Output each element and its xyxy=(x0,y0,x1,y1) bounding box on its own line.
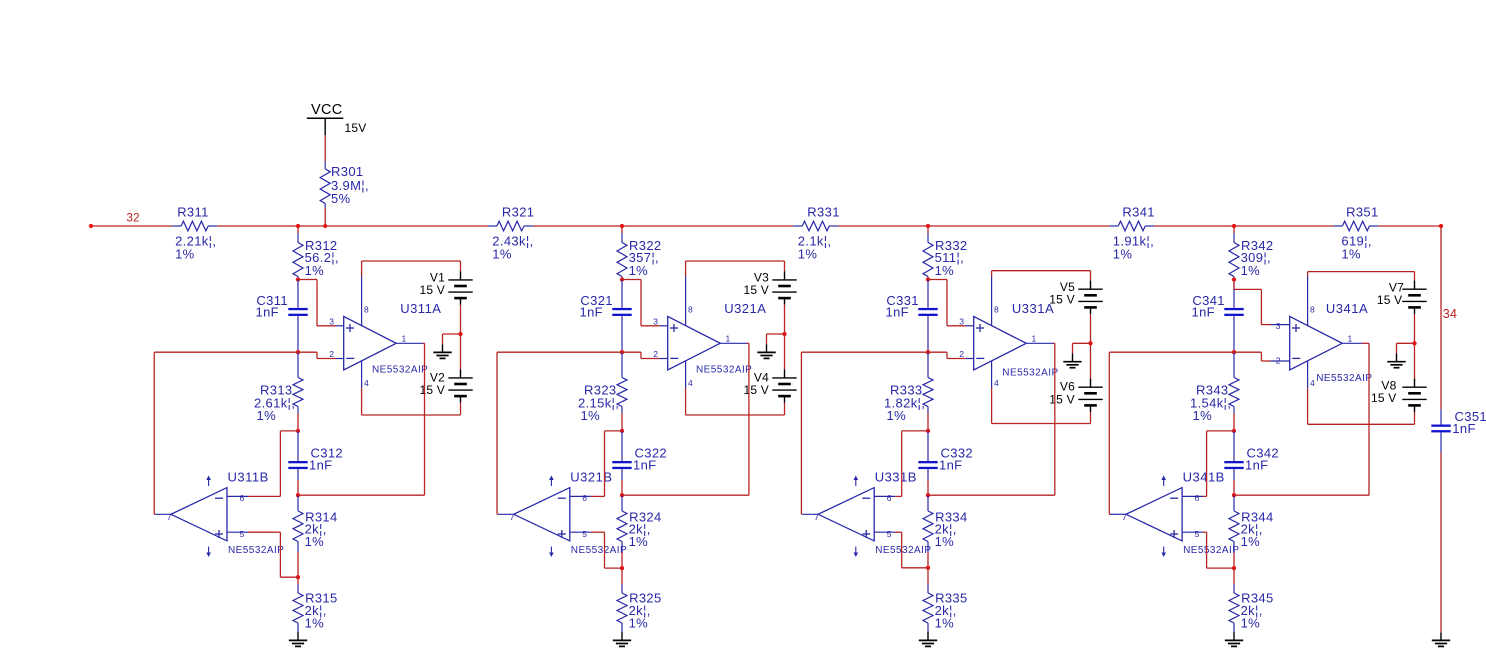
pin 8 label U311A xyxy=(364,304,369,314)
U321A pin 8 lead xyxy=(685,261,687,326)
tolerance R315 1% xyxy=(305,615,325,630)
pin 6 label U341B xyxy=(1195,493,1200,503)
value R313 xyxy=(254,395,295,410)
wire node to U311A pin3 xyxy=(298,280,336,326)
label R311 xyxy=(177,204,209,219)
node C311-R313 junction xyxy=(296,350,300,354)
node R312-C311 junction xyxy=(296,277,300,281)
tolerance R301 5% xyxy=(331,191,351,206)
tolerance R343 1% xyxy=(1193,408,1213,423)
svg-text:15 V: 15 V xyxy=(744,283,770,297)
tolerance R351 1% xyxy=(1341,247,1361,262)
pin 2 label U321A xyxy=(653,349,658,359)
resistor R301 xyxy=(320,162,330,208)
resistor R335 xyxy=(923,568,933,632)
wire U331A pin8 rail xyxy=(992,270,1091,272)
resistor R331 xyxy=(793,221,838,231)
svg-text:5: 5 xyxy=(1195,529,1200,539)
wire rail to V5 xyxy=(1090,271,1092,281)
wire R301 to bus xyxy=(324,208,326,226)
U331A pin 4 lead xyxy=(991,361,993,424)
wire mid node to ground xyxy=(1073,343,1091,353)
node bus junction stage 31 xyxy=(296,224,300,228)
ground op-amp U311A supply xyxy=(433,344,451,358)
pin 2 label U311A xyxy=(329,349,334,359)
power symbol VCC xyxy=(307,102,344,135)
U311B power arrow down xyxy=(206,547,211,558)
U321B power arrow down xyxy=(549,547,554,558)
wire U321B pin5 to node xyxy=(591,532,622,568)
wire V5 to mid node xyxy=(1090,314,1092,343)
svg-text:NE5532AIP: NE5532AIP xyxy=(875,545,931,556)
wire VCC to R301 xyxy=(324,135,326,161)
value V1 15 V xyxy=(420,283,446,297)
svg-text:1%: 1% xyxy=(305,263,325,278)
label U331B NE5532AIP xyxy=(875,545,931,556)
wire bus to R342 xyxy=(1233,226,1235,233)
U311A pin 8 lead xyxy=(361,261,363,326)
U311A pin 1 output stub xyxy=(396,342,423,344)
U311B power arrow up xyxy=(206,476,211,487)
pin 3 label U311A xyxy=(329,316,334,326)
svg-text:U321A: U321A xyxy=(724,301,766,316)
U321A minus sign xyxy=(670,357,678,359)
U341B power arrow down xyxy=(1161,547,1166,558)
wire node to U331A pin3 xyxy=(928,280,966,326)
value R341 xyxy=(1113,233,1154,248)
svg-text:34: 34 xyxy=(1443,307,1457,321)
svg-text:7: 7 xyxy=(167,512,172,522)
svg-text:R311: R311 xyxy=(177,204,209,219)
U311B pin 5 stub xyxy=(227,531,248,533)
value R331 xyxy=(798,233,832,248)
U321A pin 3 stub xyxy=(660,325,668,327)
resistor R325 xyxy=(617,568,627,632)
wire bus to R312 xyxy=(297,226,299,233)
node battery mid V7-V8 xyxy=(1412,341,1416,345)
wire U341B output feedback xyxy=(1109,352,1234,514)
label U311B xyxy=(228,470,269,485)
svg-text:1%: 1% xyxy=(935,615,955,630)
svg-text:1%: 1% xyxy=(1341,247,1361,262)
node R324-R325 junction xyxy=(620,566,624,570)
node battery mid V3-V4 xyxy=(782,332,786,336)
U321B plus sign xyxy=(558,530,566,538)
label V4 xyxy=(754,370,769,384)
resistor R314 xyxy=(293,495,303,577)
value R323 xyxy=(578,395,619,410)
tolerance R323 1% xyxy=(581,408,601,423)
svg-text:15 V: 15 V xyxy=(1377,293,1403,307)
U341B pin 7 output stub xyxy=(1110,513,1126,515)
ground op-amp U331A supply xyxy=(1063,354,1081,368)
pin 3 label U331A xyxy=(959,316,964,326)
svg-text:1%: 1% xyxy=(935,534,955,549)
resistor R315 xyxy=(293,577,303,631)
U321B pin 5 stub xyxy=(570,531,591,533)
node bus right corner xyxy=(1439,224,1443,228)
ground op-amp U341A supply xyxy=(1387,354,1405,368)
tolerance R345 1% xyxy=(1241,615,1261,630)
wire U321B output feedback xyxy=(497,352,622,514)
ground net 34 xyxy=(1432,633,1450,647)
U321A pin 2 stub xyxy=(660,358,668,360)
wire U331B pin6 to node xyxy=(895,431,928,497)
svg-text:2: 2 xyxy=(1276,356,1281,366)
label U331A NE5532AIP xyxy=(1002,368,1058,379)
pin 6 label U311B xyxy=(240,493,245,503)
value C332 1nF xyxy=(939,457,962,472)
label V1 xyxy=(430,271,445,285)
svg-text:2: 2 xyxy=(653,349,658,359)
svg-text:R351: R351 xyxy=(1346,204,1378,219)
U341B power arrow up xyxy=(1161,476,1166,487)
U331B pin 5 stub xyxy=(874,531,895,533)
pin 1 label U321A xyxy=(726,333,731,343)
svg-text:1nF: 1nF xyxy=(939,457,962,472)
op-amp U341A xyxy=(1290,316,1343,370)
node C341-R343 junction xyxy=(1232,350,1236,354)
wire V2 to bottom rail xyxy=(460,403,462,415)
svg-text:6: 6 xyxy=(240,493,245,503)
node battery mid V1-V2 xyxy=(458,332,462,336)
label C322 xyxy=(635,445,667,460)
wire C351 to ground xyxy=(1440,453,1442,633)
op-amp U331A xyxy=(974,316,1026,370)
label U331B xyxy=(875,470,917,485)
wire U311B output feedback xyxy=(154,352,298,514)
pin 5 label U331B xyxy=(887,529,892,539)
tolerance R331 1% xyxy=(798,247,818,262)
pin 5 label U311B xyxy=(240,529,245,539)
wire U321A output feedback xyxy=(622,343,749,495)
pin 5 label U341B xyxy=(1195,529,1200,539)
U341A pin 3 stub xyxy=(1271,324,1290,326)
wire bus to R322 xyxy=(621,226,623,233)
svg-text:1nF: 1nF xyxy=(256,305,279,320)
svg-text:1nF: 1nF xyxy=(1245,457,1268,472)
node R332-C331 junction xyxy=(926,277,930,281)
svg-text:3: 3 xyxy=(653,316,658,326)
node battery mid V5-V6 xyxy=(1088,341,1092,345)
label V8 xyxy=(1381,378,1396,392)
svg-text:4: 4 xyxy=(688,378,693,388)
wire node to U341A pin3 xyxy=(1234,280,1271,325)
svg-text:NE5532AIP: NE5532AIP xyxy=(1183,545,1239,556)
svg-text:3: 3 xyxy=(329,316,334,326)
value V2 15 V xyxy=(420,383,446,397)
U331B power arrow down xyxy=(854,547,859,558)
svg-text:U341A: U341A xyxy=(1326,301,1368,316)
label C332 xyxy=(941,445,973,460)
U331B minus sign xyxy=(862,497,870,499)
wire U311A output feedback xyxy=(298,343,425,495)
pin 2 label U331A xyxy=(959,349,964,359)
battery V4 xyxy=(772,369,796,402)
label R313 xyxy=(260,383,292,398)
label U341B xyxy=(1183,470,1225,485)
label R324 xyxy=(629,510,661,525)
wire net 34 vertical xyxy=(1440,226,1442,409)
U311A minus sign xyxy=(346,357,354,359)
pin 4 label U341A xyxy=(1310,378,1315,388)
svg-text:15 V: 15 V xyxy=(1049,392,1075,406)
U341B pin 5 stub xyxy=(1182,531,1203,533)
value C322 1nF xyxy=(633,457,656,472)
svg-text:1nF: 1nF xyxy=(633,457,656,472)
svg-text:5: 5 xyxy=(582,529,587,539)
value R311 xyxy=(175,233,216,248)
battery V2 xyxy=(448,369,472,402)
svg-text:1%: 1% xyxy=(1241,534,1261,549)
node R322-C321 junction xyxy=(620,277,624,281)
node net 32 left end xyxy=(89,224,93,228)
svg-text:5%: 5% xyxy=(331,191,351,206)
battery V3 xyxy=(772,271,796,304)
svg-text:U321B: U321B xyxy=(570,470,612,485)
svg-text:2: 2 xyxy=(959,349,964,359)
wire bottom rail to pin4 xyxy=(362,414,461,416)
label net 34 xyxy=(1443,307,1457,321)
U321A pin 1 output stub xyxy=(720,342,747,344)
svg-text:1nF: 1nF xyxy=(309,457,332,472)
node R344-R345 junction xyxy=(1232,566,1236,570)
tolerance R324 1% xyxy=(629,534,649,549)
wire mid node to V6 xyxy=(1090,343,1092,378)
svg-text:7: 7 xyxy=(510,512,515,522)
battery V8 xyxy=(1402,379,1426,412)
label U341A xyxy=(1326,301,1368,316)
U341A pin 1 output stub xyxy=(1342,342,1362,344)
node bus junction stage 32 xyxy=(620,224,624,228)
svg-text:1nF: 1nF xyxy=(1192,305,1215,320)
resistor R342 xyxy=(1229,233,1239,279)
pin 1 label U311A xyxy=(402,333,407,343)
U341A plus sign xyxy=(1292,324,1300,332)
svg-text:1%: 1% xyxy=(581,408,601,423)
tolerance R321 1% xyxy=(492,247,512,262)
value R334 2k xyxy=(935,522,957,537)
wire V4 to bottom rail xyxy=(784,403,786,415)
pin 8 label U331A xyxy=(994,304,999,314)
label R315 xyxy=(305,590,337,605)
op-amp U341B xyxy=(1126,488,1182,541)
wire U341A pin8 rail xyxy=(1308,271,1415,273)
label R334 xyxy=(935,510,967,525)
label net 32 xyxy=(127,213,140,225)
node bus junction stage 33 xyxy=(926,224,930,228)
resistor R332 xyxy=(923,233,933,279)
resistor R334 xyxy=(923,495,933,568)
node R314-R315 junction xyxy=(296,575,300,579)
svg-text:15 V: 15 V xyxy=(420,383,446,397)
tolerance R334 1% xyxy=(935,534,955,549)
label R323 xyxy=(584,383,616,398)
wire U331A output feedback xyxy=(928,343,1055,495)
label R343 xyxy=(1196,383,1228,398)
U341A minus sign xyxy=(1292,357,1300,359)
U341A pin 2 stub xyxy=(1271,360,1290,362)
U341B plus sign xyxy=(1170,530,1178,538)
tolerance R332 1% xyxy=(935,263,955,278)
U321A pin 4 lead xyxy=(685,361,687,415)
svg-text:1%: 1% xyxy=(629,615,649,630)
svg-text:4: 4 xyxy=(1310,378,1315,388)
wire mid node to V4 xyxy=(784,334,786,369)
pin 8 label U341A xyxy=(1310,304,1315,314)
U331A pin 3 stub xyxy=(966,325,974,327)
wire U311B pin5 to node xyxy=(248,532,298,577)
value R344 2k xyxy=(1241,522,1263,537)
svg-text:1nF: 1nF xyxy=(886,305,909,320)
U311B pin 6 stub xyxy=(227,495,248,497)
tolerance R333 1% xyxy=(887,408,907,423)
node C342-R344 junction xyxy=(1232,493,1236,497)
node C332-R334 junction xyxy=(926,493,930,497)
pin 7 label U311B xyxy=(167,512,172,522)
svg-text:1%: 1% xyxy=(798,247,818,262)
value V8 15 V xyxy=(1371,391,1397,405)
svg-text:1nF: 1nF xyxy=(580,305,603,320)
value V5 15 V xyxy=(1049,293,1075,307)
tolerance R314 1% xyxy=(305,534,325,549)
wire V7 to mid node xyxy=(1414,314,1416,343)
label C331 xyxy=(886,293,918,308)
ground below R325 xyxy=(613,632,631,647)
resistor R344 xyxy=(1229,495,1239,568)
resistor R322 xyxy=(617,233,627,279)
capacitor C332 xyxy=(918,431,937,495)
label R301 xyxy=(331,164,363,179)
svg-text:1%: 1% xyxy=(492,247,512,262)
tolerance R342 1% xyxy=(1241,263,1261,278)
svg-text:1%: 1% xyxy=(629,263,649,278)
label V5 xyxy=(1060,280,1075,294)
svg-text:3: 3 xyxy=(959,316,964,326)
wire bottom rail to pin4 xyxy=(686,414,785,416)
svg-text:2: 2 xyxy=(329,349,334,359)
battery V7 xyxy=(1402,281,1426,314)
svg-text:7: 7 xyxy=(1122,512,1127,522)
wire main bus node 32-34 xyxy=(91,225,1441,227)
svg-text:6: 6 xyxy=(887,493,892,503)
wire V6 to bottom rail xyxy=(1090,412,1092,424)
wire bus to R332 xyxy=(927,226,929,233)
node C321-R323 junction xyxy=(620,350,624,354)
value R332 xyxy=(935,250,964,265)
label U321B xyxy=(570,470,612,485)
svg-text:8: 8 xyxy=(994,304,999,314)
svg-text:1%: 1% xyxy=(887,408,907,423)
svg-text:6: 6 xyxy=(582,493,587,503)
value V7 15 V xyxy=(1377,293,1403,307)
tolerance R341 1% xyxy=(1113,247,1133,262)
svg-text:15V: 15V xyxy=(345,121,367,135)
label R342 xyxy=(1241,238,1273,253)
label R314 xyxy=(305,510,337,525)
capacitor C311 xyxy=(288,280,307,353)
wire node to U311A pin2 xyxy=(298,352,336,358)
label C312 xyxy=(311,445,343,460)
capacitor C351 xyxy=(1431,409,1450,452)
pin 4 label U331A xyxy=(994,378,999,388)
label C321 xyxy=(580,293,612,308)
svg-text:NE5532AIP: NE5532AIP xyxy=(696,365,752,376)
ground below R345 xyxy=(1225,632,1243,647)
wire node to U321A pin2 xyxy=(622,352,660,358)
node bus junction stage 34 xyxy=(1232,224,1236,228)
svg-text:1%: 1% xyxy=(935,263,955,278)
value V4 15 V xyxy=(744,383,770,397)
tolerance R313 1% xyxy=(257,408,277,423)
ground below R335 xyxy=(919,632,937,647)
capacitor C341 xyxy=(1224,280,1243,353)
wire U311B pin6 to node xyxy=(248,431,298,497)
label R341 xyxy=(1122,204,1154,219)
pin 3 label U341A xyxy=(1276,321,1281,331)
svg-text:15 V: 15 V xyxy=(1049,293,1075,307)
label R312 xyxy=(305,238,337,253)
value R321 xyxy=(492,233,533,248)
op-amp U321A xyxy=(668,316,721,370)
wire U321B pin6 to node xyxy=(591,431,622,497)
resistor R351 xyxy=(1334,221,1379,231)
svg-text:1: 1 xyxy=(402,333,407,343)
svg-text:U311A: U311A xyxy=(400,301,441,316)
svg-text:U331B: U331B xyxy=(875,470,917,485)
wire U331B output feedback xyxy=(801,352,928,514)
wire rail to V3 xyxy=(784,261,786,271)
U311A pin 4 lead xyxy=(361,361,363,415)
svg-text:NE5532AIP: NE5532AIP xyxy=(372,365,428,376)
op-amp U321B xyxy=(514,488,570,541)
label V3 xyxy=(754,271,769,285)
tolerance R322 1% xyxy=(629,263,649,278)
label U341A NE5532AIP xyxy=(1316,373,1372,384)
capacitor C312 xyxy=(288,431,307,495)
wire V8 to bottom rail xyxy=(1414,412,1416,424)
battery V1 xyxy=(448,271,472,304)
wire node to U321A pin3 xyxy=(622,280,660,326)
U341B minus sign xyxy=(1170,497,1178,499)
battery V5 xyxy=(1078,281,1102,314)
value C311 1nF xyxy=(256,305,279,320)
svg-text:15 V: 15 V xyxy=(420,283,446,297)
svg-text:1%: 1% xyxy=(175,247,195,262)
U341A pin 4 lead xyxy=(1307,361,1309,424)
U331B pin 6 stub xyxy=(874,495,895,497)
ground below R315 xyxy=(289,632,307,647)
svg-text:R321: R321 xyxy=(502,204,534,219)
label U321A NE5532AIP xyxy=(696,365,752,376)
svg-text:8: 8 xyxy=(364,304,369,314)
pin 3 label U321A xyxy=(653,316,658,326)
value R314 2k xyxy=(305,522,327,537)
node R334-R335 junction xyxy=(926,566,930,570)
tolerance R312 1% xyxy=(305,263,325,278)
U331A pin 1 output stub xyxy=(1026,342,1053,344)
pin 6 label U321B xyxy=(582,493,587,503)
value R343 xyxy=(1190,395,1231,410)
label U311B NE5532AIP xyxy=(228,545,284,556)
svg-text:U311B: U311B xyxy=(228,470,269,485)
tolerance R311 1% xyxy=(175,247,195,262)
svg-text:6: 6 xyxy=(1195,493,1200,503)
svg-text:1%: 1% xyxy=(1241,615,1261,630)
svg-text:1: 1 xyxy=(1348,333,1353,343)
U331A pin 2 stub xyxy=(966,358,974,360)
wire mid node to ground xyxy=(767,334,785,344)
